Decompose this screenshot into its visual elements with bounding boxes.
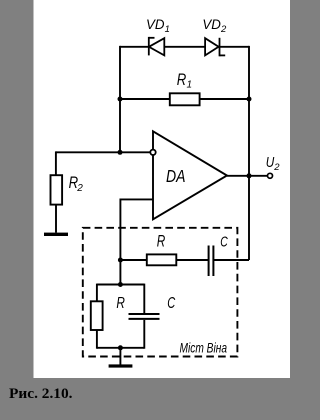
resistor R1	[170, 93, 200, 105]
node junction parallel top	[118, 282, 123, 287]
wire R1 row	[120, 98, 249, 100]
svg-text:VD: VD	[146, 16, 165, 32]
svg-text:C: C	[167, 295, 175, 312]
resistor R (series)	[147, 254, 177, 265]
svg-text:1: 1	[187, 80, 193, 91]
svg-text:R: R	[177, 71, 187, 89]
node junction R1 right	[247, 97, 252, 102]
wire series RC row left part	[120, 259, 208, 261]
node junction R1 left	[118, 97, 123, 102]
wire series RC row right part	[213, 259, 249, 261]
svg-text:VD: VD	[202, 16, 221, 32]
resistor R2	[55, 151, 57, 175]
terminal U2	[268, 173, 273, 178]
svg-text:R: R	[116, 295, 125, 312]
svg-text:2: 2	[76, 183, 83, 194]
wire parallel RC top rail	[97, 284, 144, 286]
wire output	[227, 175, 267, 177]
wire right vertical	[248, 46, 250, 260]
node junction inverting input	[118, 150, 123, 155]
node junction output	[247, 173, 252, 178]
ground below Wien bridge	[109, 364, 133, 367]
diode VD1 (zener, pointing left)	[149, 37, 165, 56]
white drawing panel	[34, 0, 291, 378]
op-amp U1 triangle DA	[153, 131, 227, 219]
svg-text:DA: DA	[166, 166, 186, 186]
wire inverting input	[56, 151, 150, 153]
svg-text:Рис. 2.10.: Рис. 2.10.	[9, 386, 73, 402]
node junction series branch	[118, 258, 123, 263]
wire non-inverting input	[120, 199, 153, 284]
svg-text:2: 2	[273, 162, 280, 173]
node junction parallel bottom	[118, 345, 123, 350]
capacitor C (series)	[208, 246, 210, 277]
svg-text:1: 1	[165, 24, 170, 35]
svg-text:R: R	[157, 233, 166, 251]
wire left vertical	[119, 46, 121, 152]
op-amp inverting bubble	[150, 150, 155, 155]
resistor R (parallel)	[96, 284, 98, 302]
svg-text:C: C	[220, 233, 228, 250]
wire top horizontal	[120, 46, 249, 48]
ground below R2	[44, 233, 68, 236]
wire ground stem	[119, 348, 121, 365]
wire parallel RC bottom rail	[97, 347, 144, 349]
capacitor C (parallel)	[143, 284, 145, 313]
diode VD2 (zener, pointing right)	[205, 38, 225, 57]
dashed box Wien bridge	[83, 228, 238, 357]
svg-text:2: 2	[220, 24, 227, 35]
svg-text:Міст Віна: Міст Віна	[180, 341, 228, 356]
